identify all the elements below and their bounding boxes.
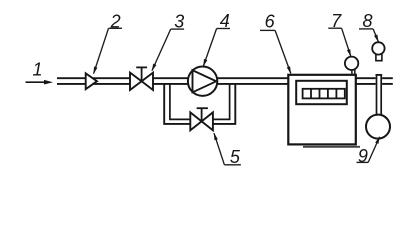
wire: main pipe upper line	[57, 77, 289, 79]
label 2 leader	[94, 28, 122, 73]
device 9 (circle)	[366, 115, 390, 139]
wire: bypass right leg	[213, 84, 236, 124]
label 6 leader	[260, 30, 291, 73]
sensor 7 (circle on box corner)	[345, 57, 358, 76]
label 5 leader	[214, 133, 241, 165]
label 9 leader	[357, 137, 380, 163]
flow arrow (inlet)	[26, 80, 54, 85]
wire: main pipe lower line	[57, 83, 289, 85]
svg-text:1: 1	[32, 60, 42, 80]
svg-text:5: 5	[230, 147, 241, 167]
svg-text:8: 8	[362, 11, 372, 31]
svg-text:9: 9	[358, 146, 368, 166]
wire: pipe right of box	[356, 78, 393, 84]
nozzle 2	[86, 73, 97, 89]
label 8 leader	[359, 29, 378, 42]
meter 4 (circle with triangle)	[188, 67, 217, 96]
wire: bypass left leg	[164, 84, 190, 124]
meter box 6	[288, 75, 360, 147]
label 3 leader	[152, 29, 184, 71]
svg-text:4: 4	[220, 11, 230, 31]
svg-text:3: 3	[174, 11, 184, 31]
thermometer 8	[372, 42, 384, 61]
valve 5 (bypass)	[190, 108, 213, 130]
svg-text:7: 7	[331, 11, 342, 31]
svg-text:2: 2	[110, 12, 121, 32]
label 7 leader	[328, 28, 350, 56]
svg-text:6: 6	[265, 12, 276, 32]
valve 3	[130, 67, 153, 90]
thermowell stub and drain line	[376, 75, 383, 116]
register display of 6	[296, 81, 347, 104]
label 4 leader	[203, 29, 230, 67]
